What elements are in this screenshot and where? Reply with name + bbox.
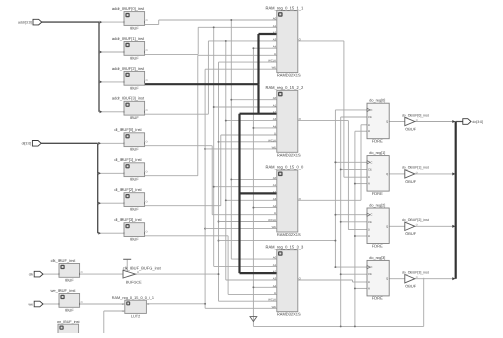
svg-text:A0: A0	[273, 96, 277, 100]
svg-text:en_IBUF_inst: en_IBUF_inst	[57, 320, 79, 324]
svg-text:R: R	[368, 286, 370, 290]
svg-text:IBUF: IBUF	[130, 26, 139, 31]
svg-text:O: O	[81, 301, 83, 304]
svg-text:A3: A3	[273, 197, 277, 201]
svg-text:WCLK: WCLK	[268, 138, 276, 142]
svg-text:C: C	[370, 213, 372, 217]
svg-text:we: we	[29, 302, 34, 306]
svg-text:A1: A1	[273, 263, 277, 267]
svg-text:D: D	[274, 132, 276, 136]
svg-text:IBUF: IBUF	[65, 307, 74, 312]
svg-text:RAMD32X1S: RAMD32X1S	[277, 152, 301, 157]
svg-text:D: D	[368, 175, 370, 179]
svg-text:A3: A3	[273, 37, 277, 41]
svg-text:A1: A1	[273, 183, 277, 187]
svg-text:FDRE: FDRE	[372, 296, 383, 301]
svg-text:O: O	[416, 171, 418, 174]
svg-text:A2: A2	[273, 31, 277, 35]
svg-text:R: R	[368, 234, 370, 238]
svg-text:RAM_reg_0_15_1_1: RAM_reg_0_15_1_1	[266, 5, 305, 10]
svg-text:C: C	[370, 108, 372, 112]
svg-text:A0: A0	[273, 17, 277, 21]
svg-text:A4: A4	[273, 45, 277, 49]
svg-text:A1: A1	[273, 104, 277, 108]
svg-text:RAM_reg_0_15_2_2: RAM_reg_0_15_2_2	[266, 85, 305, 90]
svg-text:RAM_reg_0_15_0_0_i_1: RAM_reg_0_15_0_0_i_1	[112, 296, 154, 300]
svg-text:A3: A3	[273, 277, 277, 281]
svg-text:di[3:0]: di[3:0]	[22, 142, 32, 146]
svg-text:clk: clk	[29, 272, 34, 276]
svg-text:do[3:0]: do[3:0]	[472, 120, 483, 124]
svg-text:OBUF: OBUF	[405, 231, 416, 236]
svg-text:RAM_reg_0_15_3_3: RAM_reg_0_15_3_3	[266, 244, 305, 249]
svg-text:IBUF: IBUF	[130, 237, 139, 242]
svg-text:addr_IBUF[0]_inst: addr_IBUF[0]_inst	[112, 6, 145, 11]
svg-text:we_IBUF_inst: we_IBUF_inst	[51, 288, 77, 293]
svg-text:CE: CE	[368, 115, 372, 119]
svg-text:WE: WE	[272, 225, 277, 229]
svg-text:OBUF: OBUF	[405, 284, 416, 289]
svg-text:WCLK: WCLK	[268, 59, 276, 63]
svg-text:RAMD32X1S: RAMD32X1S	[277, 232, 301, 237]
svg-text:LUT2: LUT2	[131, 315, 140, 319]
svg-text:IBUF: IBUF	[130, 85, 139, 90]
svg-text:A2: A2	[273, 270, 277, 274]
svg-text:O: O	[146, 109, 148, 112]
svg-text:OBUF: OBUF	[405, 179, 416, 184]
svg-text:WE: WE	[272, 66, 277, 70]
svg-text:O: O	[146, 140, 148, 143]
svg-text:O: O	[146, 170, 148, 173]
svg-text:WE: WE	[272, 305, 277, 309]
svg-text:do_reg[2]: do_reg[2]	[369, 203, 385, 207]
svg-text:do_OBUF[3]_inst: do_OBUF[3]_inst	[402, 271, 429, 275]
svg-text:addr_IBUF[3]_inst: addr_IBUF[3]_inst	[112, 96, 145, 101]
svg-text:addr_IBUF[1]_inst: addr_IBUF[1]_inst	[112, 36, 145, 41]
svg-text:FDRE: FDRE	[372, 243, 383, 248]
svg-text:A0: A0	[273, 176, 277, 180]
svg-text:C: C	[370, 265, 372, 269]
svg-text:di_IBUF[2]_inst: di_IBUF[2]_inst	[114, 187, 142, 192]
svg-text:do_reg[1]: do_reg[1]	[369, 151, 385, 155]
svg-text:OBUF: OBUF	[405, 126, 416, 131]
svg-text:O: O	[416, 224, 418, 227]
svg-text:O: O	[416, 276, 418, 279]
svg-text:A0: A0	[273, 256, 277, 260]
svg-text:A4: A4	[273, 284, 277, 288]
svg-text:O: O	[416, 119, 418, 122]
svg-text:O: O	[137, 271, 139, 274]
svg-text:IBUF: IBUF	[65, 277, 74, 282]
svg-text:A4: A4	[273, 204, 277, 208]
svg-text:BUFGCE: BUFGCE	[126, 281, 142, 285]
svg-text:addr[3:0]: addr[3:0]	[18, 20, 32, 24]
svg-text:IBUF: IBUF	[130, 115, 139, 120]
svg-text:D: D	[368, 123, 370, 127]
svg-text:CE: CE	[368, 272, 372, 276]
svg-text:O: O	[147, 303, 149, 306]
svg-text:A4: A4	[273, 124, 277, 128]
svg-text:FDRE: FDRE	[372, 139, 383, 144]
svg-text:O: O	[146, 230, 148, 233]
svg-text:WCLK: WCLK	[268, 218, 276, 222]
svg-text:A2: A2	[273, 110, 277, 114]
svg-text:D: D	[274, 291, 276, 295]
svg-text:A1: A1	[273, 24, 277, 28]
svg-text:R: R	[368, 182, 370, 186]
svg-text:IBUF: IBUF	[130, 55, 139, 60]
svg-text:addr_IBUF[2]_inst: addr_IBUF[2]_inst	[112, 66, 145, 71]
svg-text:R: R	[368, 129, 370, 133]
svg-text:IBUF: IBUF	[130, 207, 139, 212]
svg-text:D: D	[368, 228, 370, 232]
svg-text:RAMD32X1S: RAMD32X1S	[277, 73, 301, 78]
svg-text:di_IBUF[1]_inst: di_IBUF[1]_inst	[114, 157, 142, 162]
svg-text:do_OBUF[2]_inst: do_OBUF[2]_inst	[402, 218, 429, 222]
svg-text:D: D	[274, 52, 276, 56]
svg-text:WCLK: WCLK	[268, 298, 276, 302]
svg-text:do_OBUF[0]_inst: do_OBUF[0]_inst	[402, 113, 429, 117]
svg-text:FDRE: FDRE	[372, 191, 383, 196]
svg-text:O: O	[146, 49, 148, 52]
svg-text:A2: A2	[273, 190, 277, 194]
svg-text:CE: CE	[368, 220, 372, 224]
svg-text:CE: CE	[368, 167, 372, 171]
svg-text:O: O	[146, 200, 148, 203]
svg-text:do_OBUF[1]_inst: do_OBUF[1]_inst	[402, 166, 429, 170]
svg-text:A3: A3	[273, 117, 277, 121]
svg-text:WE: WE	[272, 145, 277, 149]
svg-text:di_IBUF[3]_inst: di_IBUF[3]_inst	[114, 217, 142, 222]
svg-text:C: C	[370, 160, 372, 164]
svg-text:do_reg[0]: do_reg[0]	[369, 99, 385, 103]
svg-text:O: O	[146, 79, 148, 82]
svg-text:clk_IBUF_inst: clk_IBUF_inst	[51, 258, 77, 263]
svg-text:do_reg[3]: do_reg[3]	[369, 256, 385, 260]
svg-text:RAM_reg_0_15_0_0: RAM_reg_0_15_0_0	[266, 165, 305, 170]
svg-text:IBUF: IBUF	[130, 177, 139, 182]
svg-text:O: O	[81, 271, 83, 274]
svg-text:D: D	[368, 280, 370, 284]
svg-text:di_IBUF[0]_inst: di_IBUF[0]_inst	[114, 127, 142, 132]
svg-text:D: D	[274, 211, 276, 215]
svg-text:clk_IBUF_BUFG_inst: clk_IBUF_BUFG_inst	[123, 265, 162, 270]
svg-text:IBUF: IBUF	[130, 147, 139, 152]
svg-text:O: O	[146, 19, 148, 22]
svg-text:RAMD32X1S: RAMD32X1S	[277, 312, 301, 317]
